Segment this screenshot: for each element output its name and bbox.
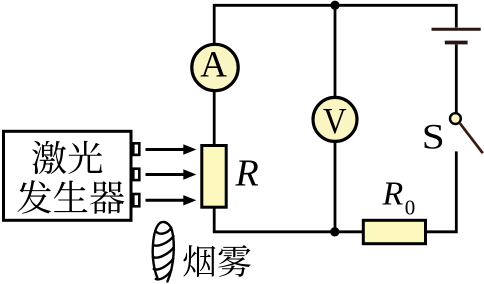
svg-text:R: R: [382, 175, 404, 212]
svg-text:S: S: [422, 116, 445, 156]
svg-text:A: A: [200, 45, 227, 86]
svg-text:0: 0: [405, 196, 416, 220]
svg-text:R: R: [235, 153, 259, 195]
svg-text:V: V: [323, 102, 347, 143]
